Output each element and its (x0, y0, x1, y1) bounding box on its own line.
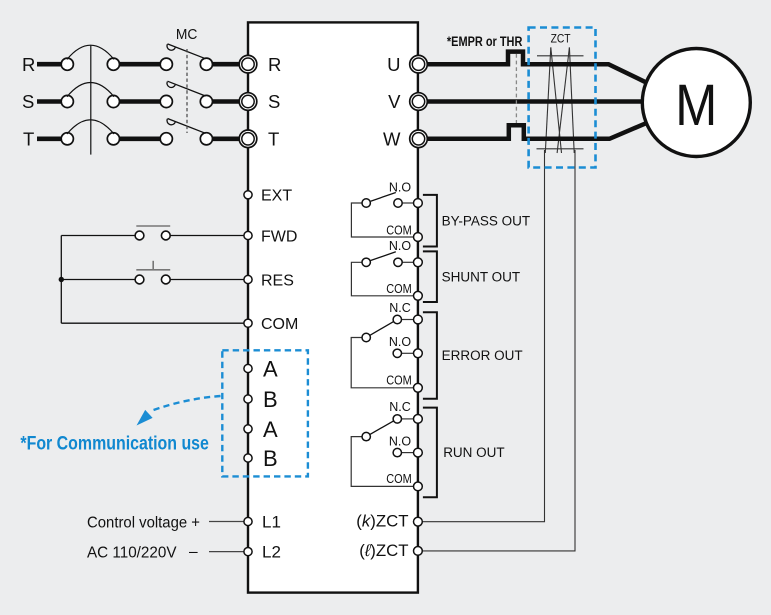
FWD wire left (61, 236, 243, 324)
SHUNT relay (351, 262, 413, 296)
breaker arc R (67, 45, 114, 154)
NC pushbutton bar (136, 225, 170, 227)
svg-text:MC: MC (176, 26, 198, 43)
wire T input segments (37, 137, 61, 142)
communication blue dashed box (222, 350, 308, 476)
svg-text:A: A (263, 417, 278, 442)
svg-text:A: A (263, 356, 278, 381)
junction node (59, 277, 64, 282)
svg-text:BY-PASS OUT: BY-PASS OUT (442, 214, 531, 229)
ZCT k sense wire (423, 150, 545, 522)
svg-text:COM: COM (261, 316, 298, 333)
svg-text:COM: COM (386, 282, 412, 296)
svg-text:(k)ZCT: (k)ZCT (356, 511, 408, 530)
L2 terminal (244, 548, 252, 556)
ERROR blade (370, 321, 394, 335)
svg-text:*For Communication use: *For Communication use (20, 433, 209, 454)
(l)ZCT terminal (414, 547, 423, 556)
SHUNT bracket (423, 251, 437, 302)
RES wire (61, 279, 135, 281)
MC contact blade T (168, 119, 206, 134)
terminal R (double circle) (239, 55, 257, 147)
common vertical wire (60, 236, 62, 324)
svg-text:T: T (268, 128, 279, 149)
svg-text:U: U (387, 54, 400, 75)
ERROR terminals (414, 315, 423, 392)
MC contact blade R (167, 44, 206, 133)
RES NO pushbutton (135, 275, 144, 284)
SHUNT terminals (414, 258, 423, 300)
MC contact blade S (168, 81, 206, 96)
arrowhead (137, 410, 153, 426)
svg-text:N.O: N.O (389, 181, 412, 195)
svg-text:N.O: N.O (389, 335, 412, 349)
ZCT winding symbol (537, 47, 584, 153)
svg-text:*EMPR or THR: *EMPR or THR (447, 34, 523, 49)
breaker contacts row T (61, 133, 73, 145)
svg-text:L2: L2 (262, 543, 281, 562)
terminal A2 (244, 425, 252, 433)
terminal V (410, 93, 428, 111)
terminal S (239, 93, 257, 111)
breaker mechanical link line (90, 46, 92, 155)
RUN relay wires (351, 419, 413, 487)
wire U output with EMPR bump to motor (427, 52, 646, 139)
svg-text:N.C: N.C (389, 400, 411, 414)
FWD NC pushbutton (135, 231, 170, 284)
COM wire (61, 322, 243, 324)
svg-text:EXT: EXT (261, 188, 292, 205)
svg-text:B: B (263, 387, 278, 412)
svg-text:(ℓ)ZCT: (ℓ)ZCT (359, 541, 408, 560)
BY-PASS terminals (414, 199, 423, 242)
L2 wire (209, 551, 244, 553)
svg-text:S: S (268, 91, 280, 112)
BY-PASS relay (351, 203, 413, 237)
wire R input segments (37, 64, 240, 139)
FWD terminal (244, 231, 252, 239)
wire W output with EMPR bump to motor (427, 123, 646, 139)
svg-text:N.O: N.O (389, 239, 412, 253)
breaker arc T (67, 120, 114, 134)
terminal W (410, 130, 428, 148)
svg-text:N.O: N.O (389, 434, 412, 448)
communication dashed arrow (152, 396, 221, 411)
inverter main box (248, 22, 418, 592)
svg-text:COM: COM (386, 223, 412, 237)
svg-text:ERROR OUT: ERROR OUT (442, 348, 523, 363)
EXT terminal (244, 191, 252, 199)
svg-text:SHUNT OUT: SHUNT OUT (442, 270, 521, 285)
SHUNT blade (371, 252, 396, 261)
RUN terminals (414, 415, 423, 491)
RES terminal (244, 275, 252, 283)
svg-text:RES: RES (261, 272, 294, 289)
svg-text:ZCT: ZCT (551, 31, 572, 45)
svg-text:B: B (263, 446, 278, 471)
breaker MCCB contacts row R (61, 58, 212, 145)
terminal B2 (244, 454, 252, 462)
svg-text:T: T (23, 128, 34, 149)
terminal A1 (244, 364, 252, 372)
ERROR relay wires (351, 320, 413, 388)
breaker contacts row S (61, 95, 73, 107)
ZCT blue dashed box (529, 28, 596, 168)
svg-text:V: V (388, 91, 401, 112)
RUN blade (370, 421, 394, 435)
terminal T (239, 130, 257, 148)
svg-text:Control voltage +: Control voltage + (87, 514, 200, 531)
svg-text:N.C: N.C (389, 301, 411, 315)
BY-PASS bracket (423, 195, 437, 247)
svg-text:FWD: FWD (261, 228, 297, 245)
ERROR bracket (423, 312, 437, 399)
svg-text:AC 110/220V: AC 110/220V (87, 544, 177, 561)
ZCT l sense wire (423, 150, 576, 551)
L1 wire (209, 521, 244, 523)
svg-text:L1: L1 (262, 513, 281, 532)
svg-text:COM: COM (386, 374, 412, 388)
NO pushbutton bar (136, 261, 170, 270)
MC dashed link line (186, 49, 188, 133)
breaker arc S (67, 83, 114, 97)
svg-text:M: M (675, 73, 717, 138)
COM terminal (244, 319, 252, 327)
EMPR dashed mechanical link (515, 54, 517, 123)
terminal B1 (244, 395, 252, 403)
svg-text:RUN OUT: RUN OUT (443, 445, 505, 460)
wire V output to motor (427, 99, 643, 104)
RUN bracket (423, 408, 437, 498)
svg-text:–: – (189, 543, 198, 560)
L1 terminal (244, 517, 252, 525)
terminal U (double circle) (410, 55, 428, 147)
svg-text:S: S (22, 91, 34, 112)
wire S input segments (37, 99, 61, 104)
BY-PASS blade (371, 193, 396, 202)
svg-text:R: R (268, 54, 281, 75)
svg-text:W: W (383, 128, 401, 149)
(k)ZCT terminal (414, 517, 423, 526)
svg-text:R: R (22, 54, 35, 75)
svg-text:COM: COM (386, 472, 412, 486)
motor M (642, 49, 750, 157)
